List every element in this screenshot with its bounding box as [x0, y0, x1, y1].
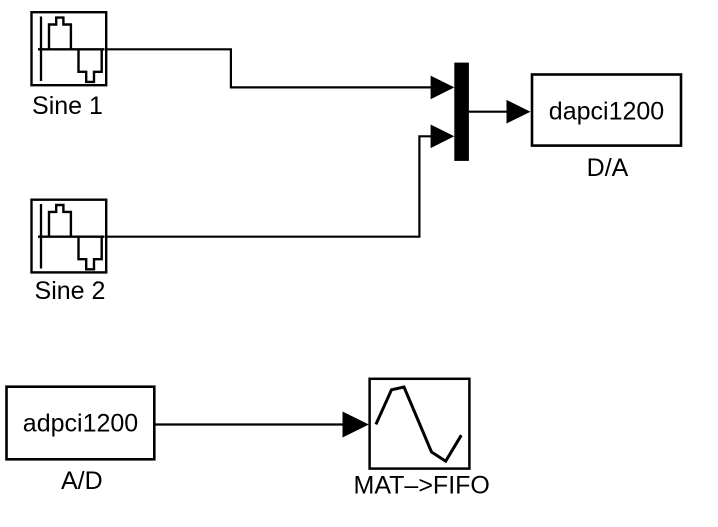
Sine 1 icon y-axis: [40, 17, 42, 82]
svg-text:MAT–>FIFO: MAT–>FIFO: [354, 472, 490, 500]
arrowhead Mux input 2: [431, 125, 455, 149]
svg-text:dapci1200: dapci1200: [549, 97, 664, 125]
block dapci1200 box: [532, 75, 681, 146]
MAT->FIFO sine icon: [376, 387, 461, 461]
wire adpci1200 to MAT->FIFO: [154, 423, 344, 425]
svg-text:A/D: A/D: [61, 467, 103, 495]
wire Mux to dapci1200: [469, 111, 507, 113]
Sine 2 icon x-axis: [38, 235, 105, 237]
arrowhead Mux input 1: [431, 76, 455, 100]
arrowhead dapci1200 input: [507, 100, 531, 124]
Sine 1 icon staircase positive half: [49, 18, 71, 50]
Sine 2 icon y-axis: [40, 204, 42, 269]
Sine 1 icon x-axis: [38, 48, 105, 50]
block MAT->FIFO box: [370, 379, 470, 469]
Sine 1 icon staircase negative half: [79, 50, 102, 82]
block adpci1200 box: [7, 387, 155, 460]
wire Sine 2 to Mux: [106, 136, 432, 236]
Sine 2 icon staircase negative half: [79, 237, 102, 269]
wire Sine 1 to Mux: [106, 49, 432, 87]
svg-text:Sine 1: Sine 1: [32, 92, 103, 120]
Sine 2 icon staircase positive half: [49, 205, 71, 237]
svg-text:D/A: D/A: [587, 154, 629, 182]
svg-text:Sine 2: Sine 2: [35, 277, 106, 305]
mux Mux bar: [454, 63, 469, 161]
svg-text:adpci1200: adpci1200: [23, 409, 138, 437]
arrowhead MAT->FIFO input: [343, 412, 369, 438]
block Sine 2 box: [32, 200, 107, 273]
block Sine 1 box: [32, 12, 107, 85]
